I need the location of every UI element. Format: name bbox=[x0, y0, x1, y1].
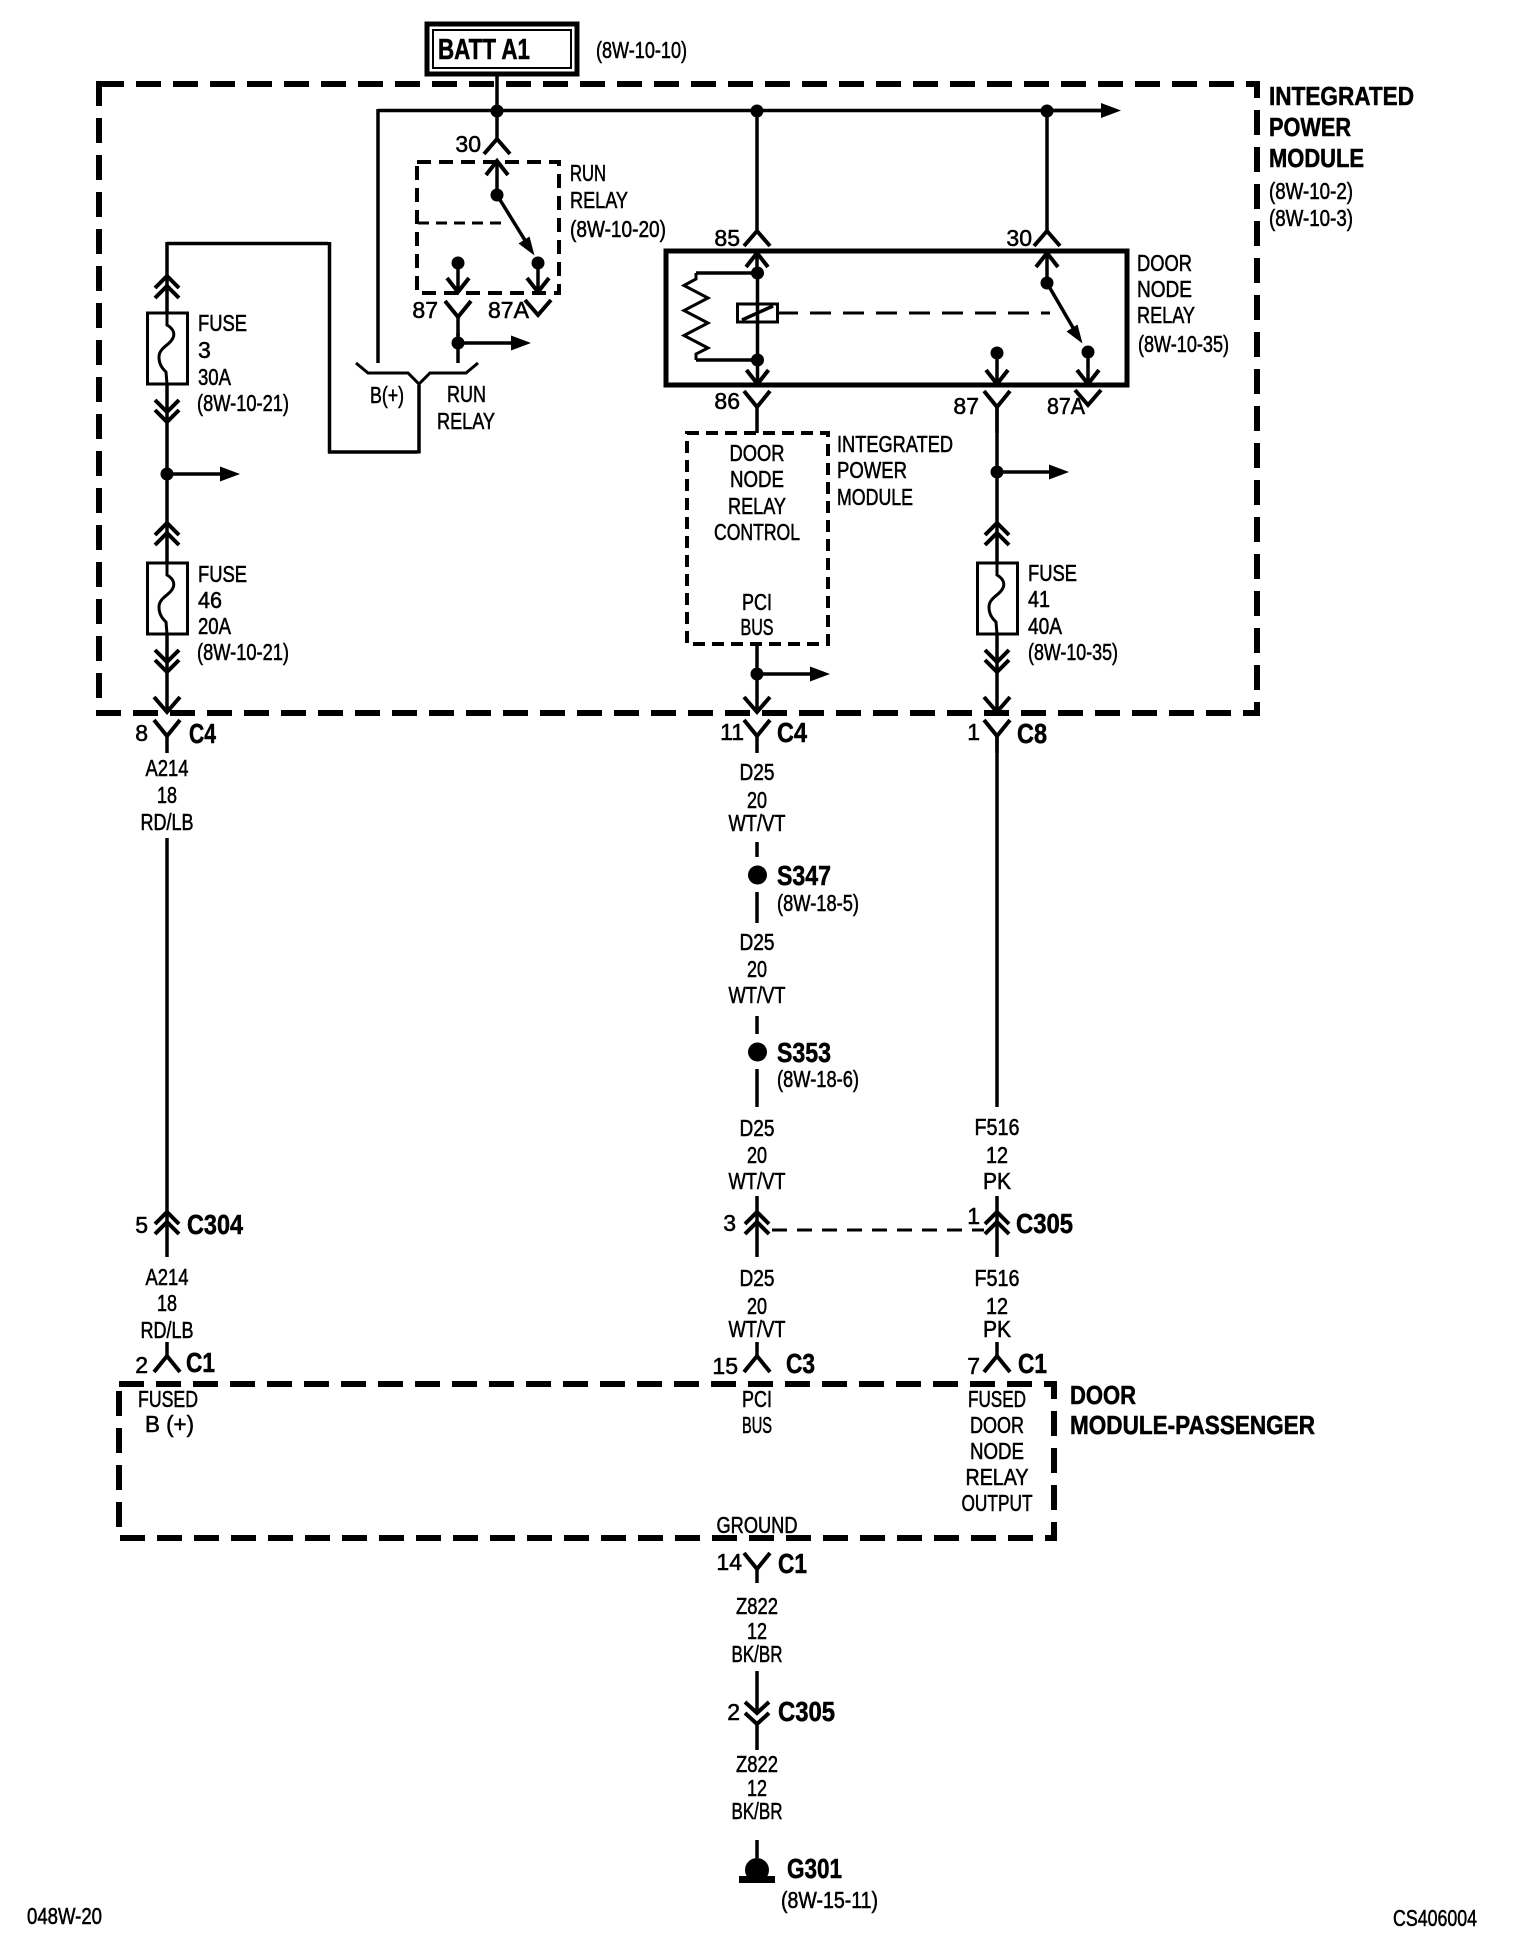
arrow fused b+ tap bbox=[167, 467, 240, 482]
connector C4 pin 11 female bbox=[744, 720, 770, 753]
svg-text:RELAY: RELAY bbox=[437, 408, 495, 434]
label GROUND bbox=[717, 1512, 798, 1538]
label FUSED B(+) bbox=[138, 1386, 198, 1437]
pin 87A label (run relay) bbox=[488, 297, 530, 323]
connector name C305 bbox=[1016, 1208, 1073, 1239]
svg-text:5: 5 bbox=[135, 1212, 148, 1238]
svg-text:INTEGRATED: INTEGRATED bbox=[837, 431, 953, 457]
run relay contact 87A dot bbox=[532, 257, 545, 270]
svg-text:BUS: BUS bbox=[741, 614, 774, 640]
svg-text:RD/LB: RD/LB bbox=[141, 809, 194, 835]
svg-text:8: 8 bbox=[135, 720, 148, 746]
svg-text:F516: F516 bbox=[975, 1265, 1020, 1291]
svg-text:2: 2 bbox=[135, 1352, 148, 1378]
door module passenger box (dashed) bbox=[119, 1384, 1054, 1538]
svg-text:RUN: RUN bbox=[447, 381, 486, 407]
label (8W-18-6) bbox=[777, 1066, 859, 1092]
svg-text:(8W-18-5): (8W-18-5) bbox=[777, 890, 859, 916]
dnr coil top junction bbox=[751, 267, 764, 280]
svg-text:C305: C305 bbox=[778, 1696, 835, 1727]
svg-text:Z822: Z822 bbox=[736, 1751, 778, 1777]
connector female pin 86 bbox=[744, 391, 770, 433]
wire label A214 18 RD/LB (upper) bbox=[141, 755, 194, 835]
svg-text:MODULE: MODULE bbox=[1269, 143, 1364, 173]
pin 87 label (dnr) bbox=[953, 393, 979, 419]
battery feed BATT A1 box bbox=[427, 24, 577, 74]
fuse F3 bbox=[148, 313, 188, 384]
svg-text:(8W-10-21): (8W-10-21) bbox=[197, 390, 289, 416]
svg-text:(8W-10-3): (8W-10-3) bbox=[1269, 205, 1353, 231]
svg-text:WT/VT: WT/VT bbox=[729, 1316, 786, 1342]
svg-text:D25: D25 bbox=[740, 1115, 775, 1141]
wire to fuse 3 bbox=[165, 242, 169, 313]
svg-text:048W-20: 048W-20 bbox=[27, 1903, 102, 1929]
pin 1 label (C305) bbox=[967, 1203, 980, 1229]
connector female pin 87A run relay bbox=[525, 300, 551, 315]
svg-text:1: 1 bbox=[967, 719, 980, 745]
run relay pin 87 male terminal bbox=[447, 263, 469, 292]
svg-text:WT/VT: WT/VT bbox=[729, 1168, 786, 1194]
junction bus/door-node-relay 85 bbox=[751, 105, 764, 118]
ground name G301 bbox=[787, 1853, 842, 1884]
svg-text:DOOR: DOOR bbox=[1137, 250, 1192, 276]
junction bus/run-relay bbox=[491, 105, 504, 118]
splice S353 bbox=[748, 1043, 767, 1062]
wire label Z822 12 BK/BR (lower) bbox=[732, 1751, 783, 1824]
door node relay control box (dashed) bbox=[687, 433, 828, 644]
inline connector above fuse 41 bbox=[985, 523, 1009, 545]
inline connector below fuse 46 bbox=[155, 650, 179, 672]
svg-text:NODE: NODE bbox=[730, 466, 784, 492]
svg-text:C4: C4 bbox=[777, 717, 807, 748]
svg-text:(8W-18-6): (8W-18-6) bbox=[777, 1066, 859, 1092]
wire bus to 30 bbox=[1045, 111, 1049, 232]
svg-text:1: 1 bbox=[967, 1203, 980, 1229]
wire dnrc to border bbox=[755, 644, 759, 711]
connector female pin 85 bbox=[744, 231, 770, 246]
dnr contact 87 dot bbox=[991, 347, 1004, 360]
wire BATT A1 to bus bbox=[495, 76, 499, 140]
svg-text:PCI: PCI bbox=[742, 1386, 772, 1412]
wire segment above S347 bbox=[755, 842, 759, 857]
dnr control label bbox=[714, 440, 800, 545]
svg-text:(8W-10-35): (8W-10-35) bbox=[1138, 331, 1229, 357]
svg-text:RUN: RUN bbox=[570, 160, 606, 186]
pin 2 label bbox=[135, 1352, 148, 1378]
run relay pin 87A male terminal bbox=[527, 263, 549, 292]
svg-text:FUSE: FUSE bbox=[198, 310, 247, 336]
connector name C3 bbox=[786, 1348, 815, 1379]
svg-text:20: 20 bbox=[747, 1142, 767, 1168]
inline connector above fuse 46 bbox=[155, 523, 179, 545]
connector female pin 30 dnr bbox=[1034, 231, 1060, 246]
svg-text:S353: S353 bbox=[777, 1037, 831, 1068]
svg-text:BATT A1: BATT A1 bbox=[438, 34, 530, 66]
pin 30 label (door node relay) bbox=[1006, 225, 1032, 251]
svg-text:BUS: BUS bbox=[742, 1412, 772, 1438]
connector female pin 30 run relay bbox=[484, 139, 510, 154]
pin 8 label bbox=[135, 720, 148, 746]
label (8W-10-2) bbox=[1269, 178, 1353, 204]
splice name S353 bbox=[777, 1037, 831, 1068]
svg-text:46: 46 bbox=[198, 587, 222, 613]
pci bus label bbox=[741, 589, 774, 640]
svg-text:D25: D25 bbox=[740, 1265, 775, 1291]
bus arrow right bbox=[1047, 103, 1121, 118]
wire label F516 12 PK (1) bbox=[975, 1114, 1020, 1194]
svg-text:40A: 40A bbox=[1028, 613, 1063, 639]
run relay common pivot bbox=[491, 189, 504, 202]
svg-text:C4: C4 bbox=[189, 718, 216, 749]
door module title DOOR MODULE-PASSENGER bbox=[1070, 1380, 1315, 1440]
connector C304 inline bbox=[155, 1212, 179, 1234]
connector name C1 (left) bbox=[186, 1347, 215, 1378]
svg-text:12: 12 bbox=[986, 1142, 1008, 1168]
wire fuse 41 to C8 bbox=[995, 634, 999, 711]
wire segment to C305 link bbox=[755, 1196, 759, 1257]
svg-text:FUSED: FUSED bbox=[138, 1386, 198, 1412]
dnr contact 87A dot bbox=[1082, 346, 1095, 359]
svg-text:GROUND: GROUND bbox=[717, 1512, 798, 1538]
svg-text:14: 14 bbox=[716, 1549, 742, 1575]
pin 1 label (C8) bbox=[967, 719, 980, 745]
connector name C305 (ground) bbox=[778, 1696, 835, 1727]
wire C8 to F516 label bbox=[995, 736, 999, 1107]
svg-text:WT/VT: WT/VT bbox=[729, 810, 786, 836]
connector C4 pin 8 female bbox=[154, 720, 180, 753]
wire segment to C305 bbox=[995, 1196, 999, 1257]
connector C305 inline bbox=[985, 1212, 1009, 1234]
svg-text:18: 18 bbox=[157, 782, 177, 808]
svg-text:FUSE: FUSE bbox=[1028, 560, 1077, 586]
ground G301 symbol bbox=[739, 1858, 775, 1883]
wire fuse 46 to C4 bbox=[165, 634, 169, 711]
svg-text:OUTPUT: OUTPUT bbox=[962, 1490, 1033, 1516]
label FUSED DOOR NODE RELAY OUTPUT bbox=[962, 1386, 1033, 1516]
svg-text:RELAY: RELAY bbox=[966, 1464, 1029, 1490]
pin 3 label bbox=[723, 1210, 736, 1236]
svg-text:7: 7 bbox=[967, 1353, 980, 1379]
svg-text:CS406004: CS406004 bbox=[1393, 1905, 1477, 1931]
wire label D25 20 WT/VT (4) bbox=[729, 1265, 786, 1342]
run relay pin 30 male terminal bbox=[486, 161, 508, 195]
svg-text:INTEGRATED: INTEGRATED bbox=[1269, 81, 1414, 111]
svg-text:FUSED: FUSED bbox=[968, 1386, 1026, 1412]
wire bus to 85 bbox=[755, 111, 759, 232]
wire label D25 20 WT/VT (2) bbox=[729, 929, 786, 1008]
dashed link 3 to C305 bbox=[772, 1229, 984, 1232]
svg-text:A214: A214 bbox=[146, 755, 189, 781]
connector name C1 (right) bbox=[1018, 1348, 1047, 1379]
svg-text:85: 85 bbox=[714, 225, 740, 251]
wire fuse 3 to fuse 46 bbox=[165, 384, 169, 563]
wire label F516 12 PK (2) bbox=[975, 1265, 1020, 1342]
svg-text:B (+): B (+) bbox=[145, 1411, 194, 1437]
arrow pci bus tap bbox=[757, 667, 830, 682]
svg-text:30A: 30A bbox=[198, 364, 232, 390]
connector C1 pin 2 male bbox=[154, 1342, 180, 1372]
svg-text:NODE: NODE bbox=[970, 1438, 1024, 1464]
run relay armature dashed line bbox=[418, 222, 504, 225]
pin 30 label (run relay) bbox=[455, 131, 481, 157]
arrow run relay output bbox=[458, 336, 531, 351]
wire A214 long run bbox=[165, 838, 169, 1257]
dnr pin 87 male terminal bbox=[986, 353, 1008, 384]
wire 87 to fuse 41 bbox=[995, 407, 999, 563]
svg-text:RELAY: RELAY bbox=[728, 493, 786, 519]
run relay contact 87 dot bbox=[452, 257, 465, 270]
svg-text:(8W-10-10): (8W-10-10) bbox=[596, 37, 687, 63]
svg-text:S347: S347 bbox=[777, 860, 831, 891]
svg-text:DOOR: DOOR bbox=[970, 1412, 1024, 1438]
wire segment above S353 bbox=[755, 1016, 759, 1034]
svg-text:C8: C8 bbox=[1017, 718, 1047, 749]
label B(+) bbox=[370, 382, 404, 408]
wire label D25 20 WT/VT (1) bbox=[729, 759, 786, 836]
dnr resistor bbox=[684, 273, 757, 360]
label PCI BUS (module) bbox=[742, 1386, 772, 1438]
connector name C8 bbox=[1017, 718, 1047, 749]
fuse F41 bbox=[978, 563, 1018, 634]
pin 87A label (dnr) bbox=[1047, 393, 1086, 419]
dnr control dashed link bbox=[777, 312, 1050, 315]
splice S347 bbox=[748, 866, 767, 885]
dnr coil bottom junction bbox=[751, 354, 764, 367]
svg-text:B(+): B(+) bbox=[370, 382, 404, 408]
svg-text:20A: 20A bbox=[198, 613, 232, 639]
wire segment below S347 bbox=[755, 892, 759, 923]
svg-text:15: 15 bbox=[712, 1353, 738, 1379]
svg-text:F516: F516 bbox=[975, 1114, 1020, 1140]
connector female pin 87 dnr bbox=[984, 391, 1010, 433]
svg-text:C3: C3 bbox=[786, 1348, 815, 1379]
label (8W-15-11) bbox=[781, 1887, 878, 1913]
svg-text:87: 87 bbox=[953, 393, 979, 419]
svg-text:C1: C1 bbox=[778, 1548, 807, 1579]
door node relay box bbox=[666, 251, 1127, 385]
door node relay label bbox=[1137, 250, 1229, 357]
dnr pin 86 male terminal bbox=[747, 360, 769, 384]
junction pci bus tap bbox=[751, 668, 764, 681]
svg-text:RELAY: RELAY bbox=[1137, 302, 1195, 328]
pin 7 label bbox=[967, 1353, 980, 1379]
svg-text:BK/BR: BK/BR bbox=[732, 1798, 783, 1824]
svg-text:A214: A214 bbox=[146, 1264, 189, 1290]
svg-text:POWER: POWER bbox=[837, 457, 907, 483]
label RUN RELAY (bracket) bbox=[437, 381, 495, 434]
svg-text:PK: PK bbox=[983, 1168, 1012, 1194]
pin 5 label bbox=[135, 1212, 148, 1238]
dnr coil wire bbox=[756, 273, 760, 360]
connector name C4 (left) bbox=[189, 718, 216, 749]
svg-text:BK/BR: BK/BR bbox=[732, 1641, 783, 1667]
wire pin 87 down bbox=[456, 333, 460, 363]
connector name C4 (middle) bbox=[777, 717, 807, 748]
wire to ground G301 bbox=[755, 1840, 759, 1858]
svg-text:11: 11 bbox=[720, 719, 744, 745]
inline connector below fuse 41 bbox=[985, 650, 1009, 672]
fuse F46 bbox=[148, 563, 188, 634]
inline connector below fuse 3 bbox=[155, 400, 179, 422]
svg-text:30: 30 bbox=[1006, 225, 1032, 251]
label (8W-18-5) bbox=[777, 890, 859, 916]
svg-text:C304: C304 bbox=[187, 1209, 243, 1240]
pin 11 label bbox=[720, 719, 744, 745]
pin 86 label bbox=[714, 388, 740, 414]
svg-text:DOOR: DOOR bbox=[730, 440, 785, 466]
svg-text:PCI: PCI bbox=[742, 589, 772, 615]
connector name C304 bbox=[187, 1209, 243, 1240]
pin 2 label (C305) bbox=[727, 1699, 740, 1725]
inline connector above fuse 3 bbox=[155, 276, 179, 298]
bus wire B+ bbox=[378, 109, 1104, 363]
svg-text:(8W-10-21): (8W-10-21) bbox=[197, 639, 289, 665]
svg-text:20: 20 bbox=[747, 956, 767, 982]
sheet number 048W-20 bbox=[27, 1903, 102, 1929]
connector C1 pin 7 male bbox=[984, 1342, 1010, 1372]
junction bus/door-node-relay 30 bbox=[1041, 105, 1054, 118]
run relay switch blade bbox=[497, 195, 535, 256]
dnr switch blade bbox=[1047, 283, 1083, 344]
arrow fuse41 tap bbox=[997, 465, 1069, 480]
wire label Z822 12 BK/BR (upper) bbox=[732, 1593, 783, 1667]
svg-text:CONTROL: CONTROL bbox=[714, 519, 800, 545]
connector inline pin 3 bbox=[745, 1212, 769, 1234]
IPM title INTEGRATED POWER MODULE bbox=[1269, 81, 1414, 173]
connector C1 pin 14 female bbox=[744, 1553, 770, 1583]
dnr pin 30 male terminal bbox=[1036, 253, 1058, 283]
connector male into border x167 bbox=[154, 697, 180, 712]
drawing number CS406004 bbox=[1393, 1905, 1477, 1931]
svg-text:2: 2 bbox=[727, 1699, 740, 1725]
svg-text:C1: C1 bbox=[1018, 1348, 1047, 1379]
connector male into border x997 bbox=[984, 697, 1010, 712]
svg-text:POWER: POWER bbox=[1269, 112, 1351, 142]
fuse 41 label bbox=[1028, 560, 1118, 665]
svg-text:(8W-10-35): (8W-10-35) bbox=[1028, 639, 1118, 665]
wire to C305 ground bbox=[755, 1671, 759, 1750]
connector C8 pin 1 female bbox=[984, 720, 1010, 753]
svg-text:Z822: Z822 bbox=[736, 1593, 778, 1619]
svg-text:RD/LB: RD/LB bbox=[141, 1317, 194, 1343]
svg-text:RELAY: RELAY bbox=[570, 187, 628, 213]
integrated power module box (dashed) bbox=[99, 84, 1257, 713]
svg-text:G301: G301 bbox=[787, 1853, 842, 1884]
svg-text:MODULE-PASSENGER: MODULE-PASSENGER bbox=[1070, 1410, 1315, 1440]
svg-text:18: 18 bbox=[157, 1290, 177, 1316]
label (8W-10-3) bbox=[1269, 205, 1353, 231]
svg-text:FUSE: FUSE bbox=[198, 561, 247, 587]
svg-text:30: 30 bbox=[455, 131, 481, 157]
fuse 3 label bbox=[197, 310, 289, 416]
connector male into border x757 bbox=[744, 697, 770, 712]
pin 15 label bbox=[712, 1353, 738, 1379]
svg-text:C305: C305 bbox=[1016, 1208, 1073, 1239]
wire segment below S353 bbox=[755, 1069, 759, 1107]
svg-text:86: 86 bbox=[714, 388, 740, 414]
svg-text:41: 41 bbox=[1028, 586, 1050, 612]
dnr pin 85 male terminal bbox=[746, 253, 768, 273]
connector C305 inline (ground) bbox=[745, 1702, 769, 1724]
dnr pin 87A male terminal bbox=[1077, 352, 1099, 384]
junction fused b+ tap bbox=[161, 468, 174, 481]
svg-text:(8W-10-2): (8W-10-2) bbox=[1269, 178, 1353, 204]
dnr relay coil bbox=[738, 304, 778, 322]
connector C3 pin 15 male bbox=[744, 1342, 770, 1372]
svg-text:DOOR: DOOR bbox=[1070, 1380, 1136, 1410]
pin 87 label (run relay) bbox=[412, 297, 438, 323]
svg-text:87A: 87A bbox=[488, 297, 530, 323]
junction fuse41 tap bbox=[991, 466, 1004, 479]
svg-text:3: 3 bbox=[723, 1210, 736, 1236]
svg-text:MODULE: MODULE bbox=[837, 484, 913, 510]
junction run relay output bbox=[452, 337, 465, 350]
svg-text:C1: C1 bbox=[186, 1347, 215, 1378]
wire label A214 18 RD/LB (lower) bbox=[141, 1264, 194, 1343]
node B(+)/RUN RELAY bracket bbox=[356, 363, 478, 384]
fuse 46 label bbox=[197, 561, 289, 665]
run relay label RUN RELAY (8W-10-20) bbox=[570, 160, 666, 242]
wire label D25 20 WT/VT (3) bbox=[729, 1115, 786, 1194]
svg-text:NODE: NODE bbox=[1137, 276, 1192, 302]
dnr switch pivot dot bbox=[1041, 277, 1054, 290]
svg-text:3: 3 bbox=[198, 337, 211, 363]
connector female pin 87 run relay bbox=[445, 301, 471, 336]
svg-text:PK: PK bbox=[983, 1316, 1012, 1342]
connector female pin 87A dnr bbox=[1075, 390, 1101, 405]
wire bracket to fuse 3 bbox=[167, 242, 419, 454]
svg-text:(8W-15-11): (8W-15-11) bbox=[781, 1887, 878, 1913]
svg-text:(8W-10-20): (8W-10-20) bbox=[570, 216, 666, 242]
label (8W-10-10) bbox=[596, 37, 687, 63]
pin 14 label bbox=[716, 1549, 742, 1575]
pin 85 label bbox=[714, 225, 740, 251]
run relay box (dashed) bbox=[417, 162, 559, 293]
connector name C1 (ground) bbox=[778, 1548, 807, 1579]
splice name S347 bbox=[777, 860, 831, 891]
svg-text:87: 87 bbox=[412, 297, 438, 323]
svg-text:D25: D25 bbox=[740, 759, 775, 785]
svg-text:WT/VT: WT/VT bbox=[729, 982, 786, 1008]
svg-text:D25: D25 bbox=[740, 929, 775, 955]
ipm label (inner) bbox=[837, 431, 953, 510]
